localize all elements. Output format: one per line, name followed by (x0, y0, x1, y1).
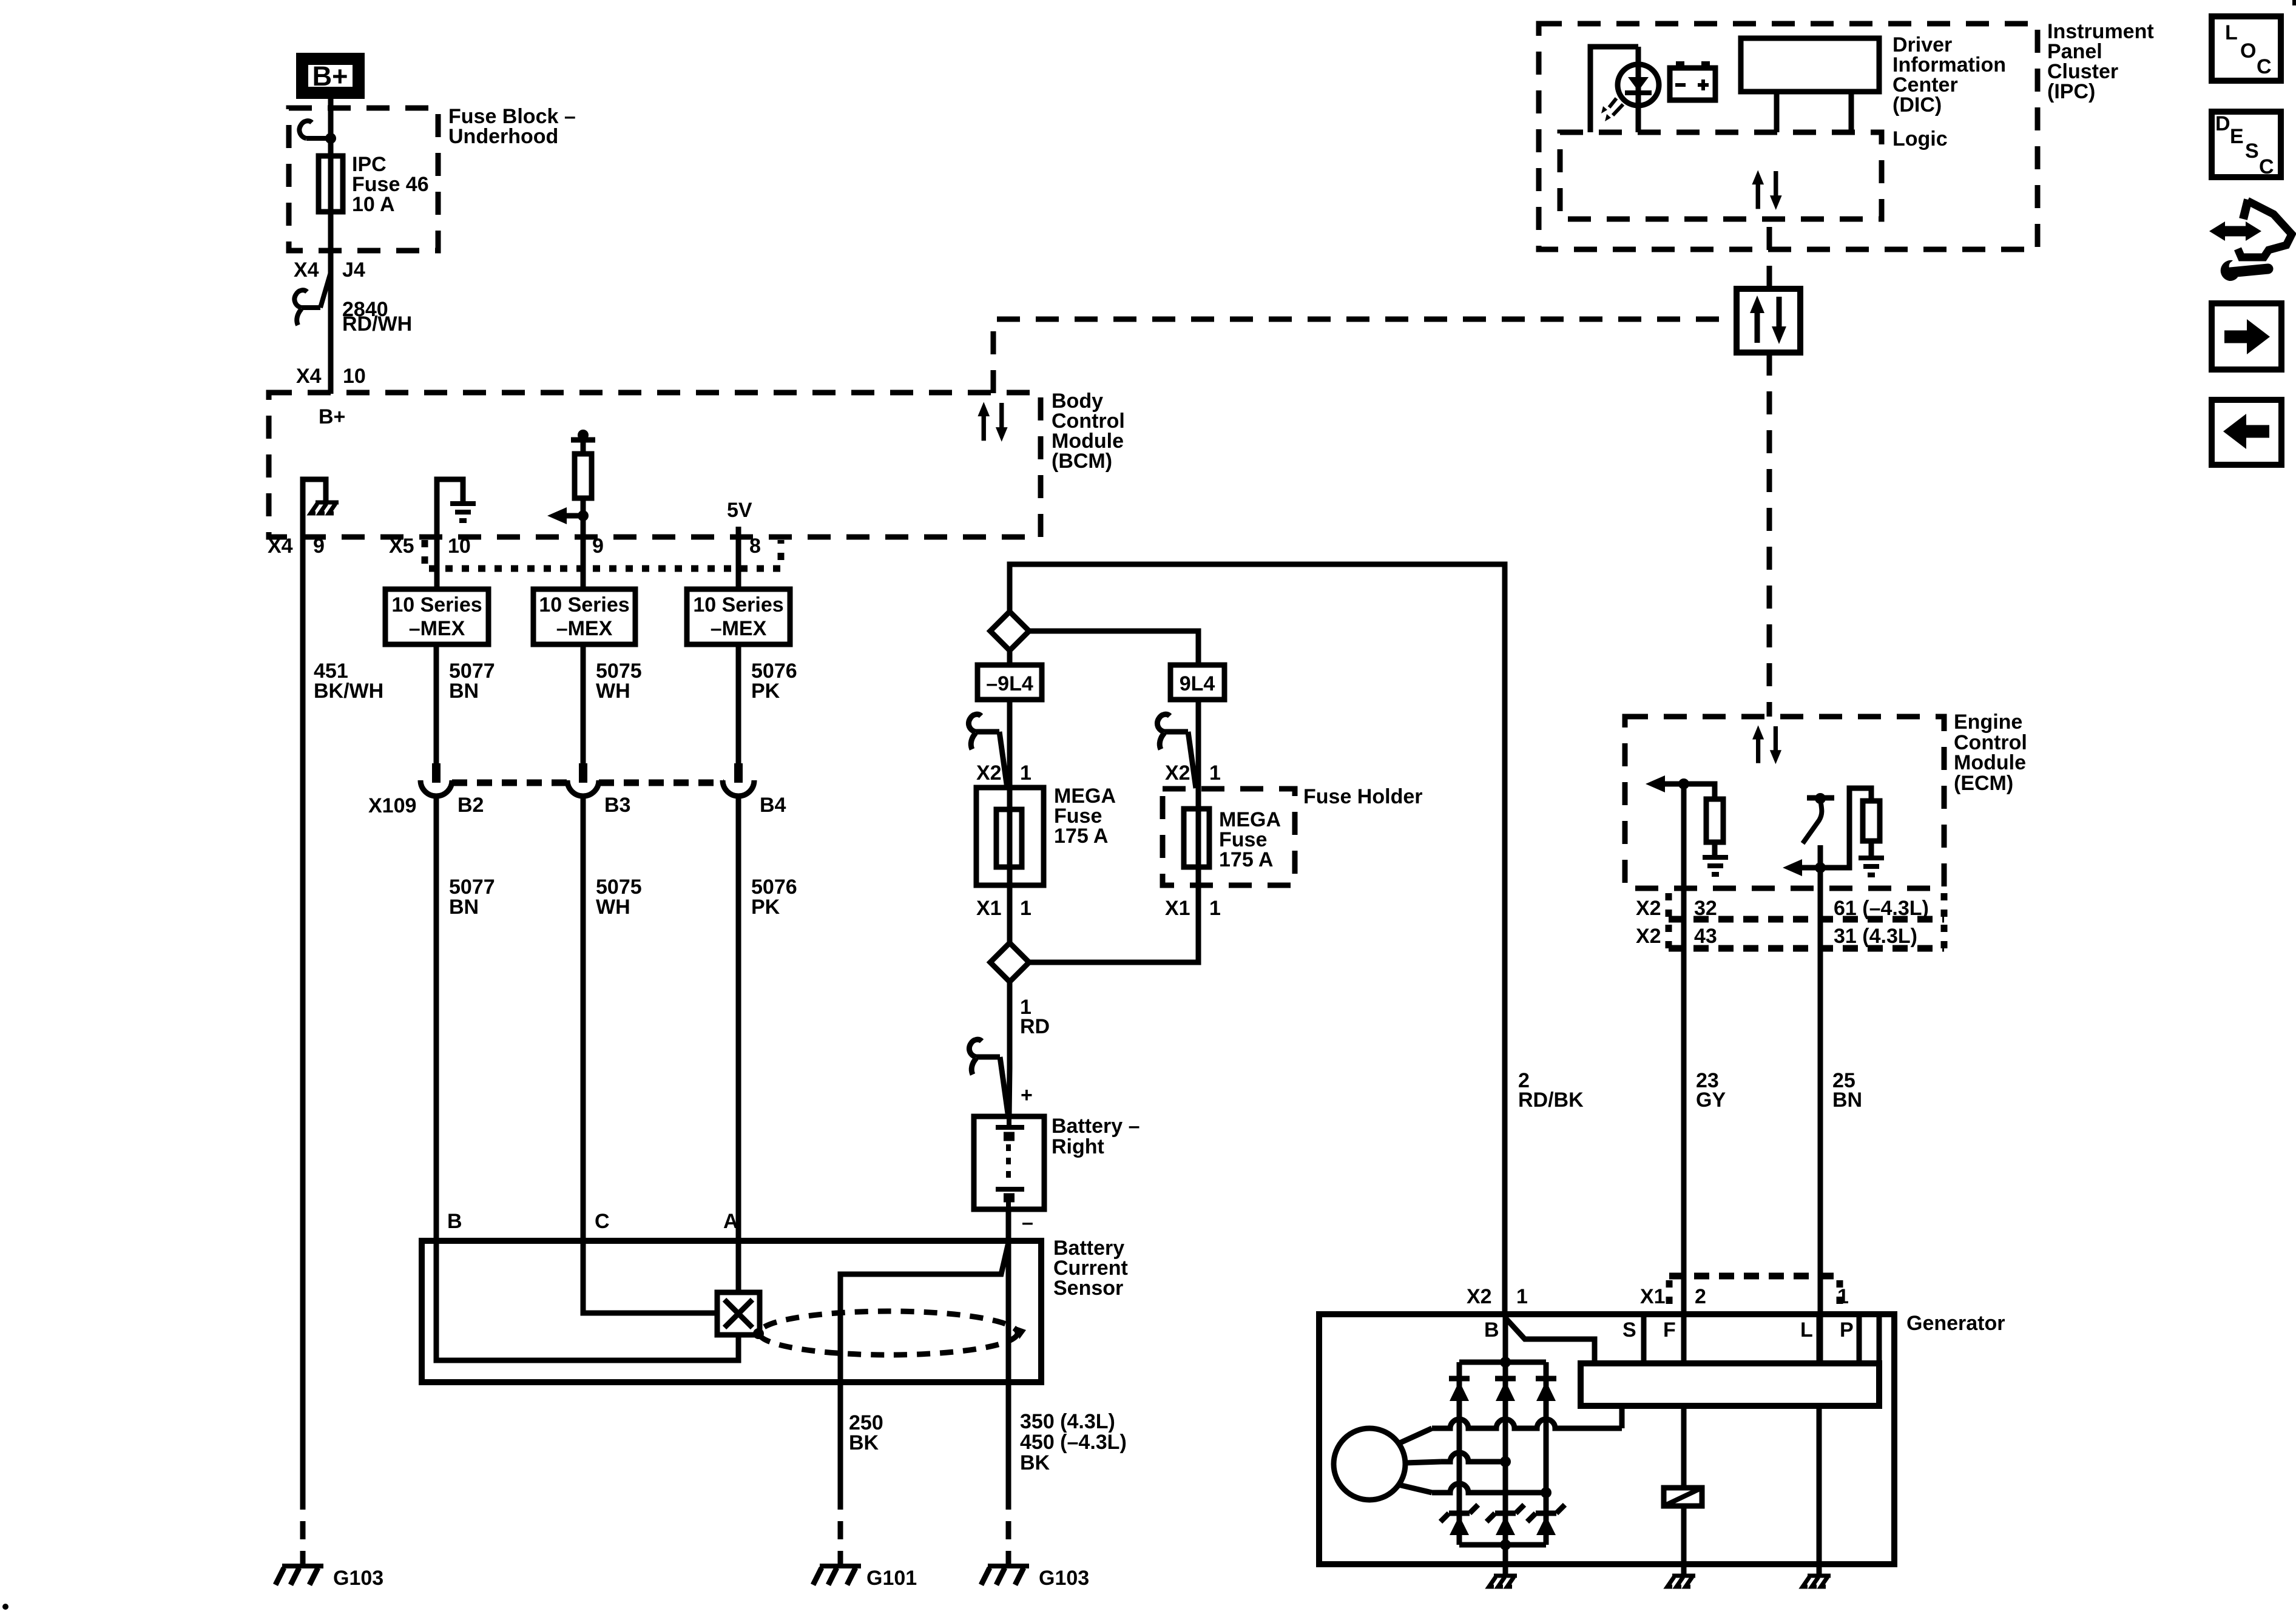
connector X109 pin B4 (723, 763, 754, 796)
ECM wire pin 32-43 down (1681, 784, 1687, 1363)
wire B3 to sensor C (581, 796, 586, 1241)
svg-text:1: 1 (1516, 1285, 1528, 1308)
svg-text:175 A: 175 A (1219, 848, 1273, 871)
left MEGA fuse element (996, 809, 1022, 867)
generator F ground (1667, 1576, 1695, 1587)
connector X109 pin B2 (420, 763, 452, 796)
battery cell bottom long plate (996, 1187, 1024, 1192)
battery main negative wire through sensor (1006, 1209, 1011, 1382)
generator box (1319, 1314, 1894, 1564)
wire 23 GY ECM to F terminal (1681, 1314, 1687, 1363)
charge telltale battery icon (1670, 68, 1715, 100)
svg-text:BN: BN (1832, 1089, 1862, 1112)
svg-text:2: 2 (1695, 1285, 1706, 1308)
top diode leg3 (1536, 1379, 1556, 1401)
svg-text:1: 1 (1020, 897, 1032, 920)
field relay element (1664, 1488, 1702, 1506)
svg-text:10 Series: 10 Series (391, 593, 482, 616)
generator X1 connector dashed outline (1669, 1273, 1840, 1280)
wire 25 BN to L terminal (1817, 1314, 1822, 1363)
rotor lead bottom (1399, 1485, 1432, 1493)
svg-text:J4: J4 (342, 258, 365, 282)
svg-text:A: A (723, 1210, 738, 1233)
generator B ground (1489, 1576, 1517, 1587)
battery internal stubs (1008, 1116, 1009, 1209)
sensor internal wire B return (436, 1241, 738, 1360)
svg-text:X2: X2 (1636, 897, 1661, 920)
svg-text:B: B (447, 1210, 462, 1233)
stator phase B winding (1441, 1453, 1505, 1462)
resistor to ground stub (1869, 841, 1874, 857)
rail junction dot (578, 430, 589, 441)
wire module2 to X109 B3 (581, 644, 586, 763)
wire B+ box to fuse block (328, 99, 334, 159)
ECM serial arrows (1752, 725, 1781, 764)
wire 451 dashed to ground (300, 1491, 306, 1561)
svg-text:PK: PK (751, 896, 780, 919)
wire B to case ground (1503, 1545, 1508, 1576)
svg-text:9L4: 9L4 (1180, 672, 1215, 695)
svg-text:G101: G101 (866, 1567, 917, 1590)
supply rail bar (571, 437, 595, 443)
net name box 9L4 (1170, 665, 1224, 700)
branch wire diamond to 9L4 (1029, 631, 1198, 665)
svg-text:C: C (2257, 55, 2272, 78)
svg-text:D: D (2215, 112, 2230, 135)
svg-text:450 (–4.3L): 450 (–4.3L) (1020, 1431, 1127, 1454)
ECM left branch to resistor (1684, 784, 1715, 799)
svg-text:(DIC): (DIC) (1893, 93, 1942, 116)
rectifier bottom bus (1459, 1542, 1546, 1548)
in-line connector clip right fuse X2-1 (1157, 714, 1196, 788)
branch wire right fuse to lower diamond (1029, 885, 1198, 962)
svg-text:B+: B+ (319, 405, 345, 428)
battery Battery-Right box (974, 1116, 1044, 1209)
adjust hand wrench icon (2243, 200, 2248, 219)
engine control module ECM dashed box (1625, 717, 1944, 888)
X109 connector dashed link (452, 780, 724, 786)
fuse holder dashed box (1163, 789, 1295, 885)
svg-text:Right: Right (1052, 1135, 1104, 1158)
svg-text:G103: G103 (333, 1567, 383, 1590)
svg-text:X109: X109 (368, 794, 416, 817)
net name box -9L4 (977, 665, 1042, 700)
ECM wire pin 61-31 down (1818, 868, 1823, 1363)
telltale LED bracket wiring (1590, 47, 1638, 132)
svg-text:X4: X4 (268, 535, 293, 558)
terminal slot P (1859, 1314, 1879, 1363)
junction dot at sensor element (753, 1328, 764, 1339)
svg-text:Sensor: Sensor (1053, 1277, 1123, 1300)
battery internal dashed link (1006, 1144, 1011, 1183)
serial data dashed line interface to ECM (1767, 353, 1772, 717)
IPC logic arrows (1752, 170, 1781, 210)
wire 9L4 to right MEGA fuse (1196, 700, 1201, 885)
svg-text:Logic: Logic (1893, 127, 1948, 150)
ground G103 right (1006, 1559, 1011, 1566)
svg-text:S: S (2245, 140, 2259, 163)
svg-text:X1: X1 (976, 897, 1002, 920)
wire 1 RD diamond to battery (1009, 982, 1010, 1116)
wire 250 BK dashed to ground (838, 1491, 843, 1561)
svg-text:C: C (595, 1210, 610, 1233)
svg-text:10 Series: 10 Series (539, 593, 629, 616)
back arrow icon box (2212, 400, 2281, 465)
regulator sense tap to phase A (1619, 1406, 1625, 1428)
wire 451 BK/WH long run (300, 537, 306, 1491)
wire BCM X5-9 to module 2 (581, 537, 586, 589)
switch lower stub (1818, 845, 1823, 868)
voltage regulator bar (1581, 1363, 1879, 1406)
svg-text:5V: 5V (727, 499, 752, 522)
svg-text:BN: BN (449, 896, 479, 919)
top diode leg1 (1449, 1379, 1470, 1401)
connector X109 pin B3 (567, 763, 599, 796)
svg-text:L: L (1800, 1318, 1813, 1342)
wire BCM X5-10 to module 1 (434, 537, 440, 589)
rotor lead middle (1405, 1462, 1441, 1463)
svg-text:10 Series: 10 Series (693, 593, 783, 616)
BCM serial data arrows (977, 402, 1007, 442)
switch contact dot (1815, 793, 1826, 804)
svg-text:BK: BK (849, 1431, 879, 1454)
serial data interface box (1737, 289, 1800, 353)
IPC logic dashed box (1560, 132, 1882, 219)
wire B2 to sensor B (434, 796, 439, 1241)
in-line connector clip battery feed (969, 1039, 1008, 1113)
svg-text:F: F (1663, 1318, 1676, 1342)
junction dot phase C (1541, 1487, 1551, 1498)
junction dot ECM left (1678, 778, 1689, 789)
svg-text:–MEX: –MEX (409, 617, 465, 640)
ECM right branch to resistor (1820, 788, 1871, 868)
svg-text:(IPC): (IPC) (2047, 80, 2095, 103)
svg-text:175 A: 175 A (1054, 825, 1108, 848)
LED emission arrows (1609, 98, 1623, 115)
svg-text:B2: B2 (458, 794, 484, 817)
svg-text:X4: X4 (294, 258, 319, 282)
svg-text:9: 9 (313, 535, 325, 558)
svg-text:–: – (1022, 1211, 1033, 1234)
fuse block underhood dashed box (289, 108, 438, 251)
body control module BCM dashed box (269, 393, 1041, 537)
svg-text:31 (4.3L): 31 (4.3L) (1834, 925, 1917, 948)
ECM switch top contact bar (1807, 795, 1834, 801)
wire 250 BK below sensor (838, 1382, 843, 1491)
fuse IPC Fuse 46 10 A (319, 156, 343, 212)
svg-text:+: + (1021, 1084, 1033, 1107)
stator phase C winding (1432, 1484, 1546, 1493)
svg-text:B4: B4 (760, 794, 786, 817)
sensor dashed sensing loop ellipse (759, 1311, 1018, 1355)
svg-text:(BCM): (BCM) (1052, 450, 1112, 473)
ground G103 left (300, 1559, 306, 1566)
svg-text:BK/WH: BK/WH (314, 680, 383, 703)
svg-text:350 (4.3L): 350 (4.3L) (1020, 1410, 1115, 1433)
ECM resistor right (1863, 801, 1880, 841)
junction dot ECM right (1815, 862, 1826, 873)
splice diamond lower (990, 943, 1029, 982)
B+ battery feed terminal box (302, 59, 359, 93)
sensor hall element box with X (717, 1292, 760, 1335)
top feed wire from generator B to splice (1010, 564, 1505, 1314)
svg-text:P: P (1840, 1318, 1854, 1342)
svg-text:9: 9 (592, 535, 604, 558)
instrument panel cluster IPC dashed box (1539, 24, 2038, 249)
wire 2840 RD/WH fuse block to BCM (328, 251, 334, 394)
interface box arrows (1750, 295, 1786, 344)
10 Series -MEX module 2 (533, 589, 635, 644)
in-line connector clip X4-J4 (294, 272, 331, 325)
svg-text:WH: WH (596, 896, 630, 919)
svg-text:8: 8 (749, 535, 761, 558)
X5 connector dotted outline (425, 540, 781, 569)
rotor circle (1334, 1428, 1405, 1500)
battery cell top long plate (996, 1125, 1024, 1130)
B terminal tap to regulator (1505, 1318, 1595, 1363)
svg-text:PK: PK (751, 680, 780, 703)
svg-text:L: L (2225, 21, 2238, 44)
svg-text:X5: X5 (389, 535, 414, 558)
sensor internal wire A (736, 1241, 741, 1292)
svg-text:1: 1 (1209, 897, 1221, 920)
svg-text:–MEX: –MEX (556, 617, 613, 640)
svg-text:BK: BK (1020, 1451, 1050, 1474)
BCM pull-up resistor (581, 498, 586, 516)
ECM earth ground right (1859, 858, 1884, 875)
BCM earth ground symbol (450, 504, 476, 521)
right MEGA fuse element (1184, 809, 1209, 867)
wire 5V pin 8 (736, 527, 741, 589)
wire module1 to X109 B2 (434, 644, 439, 763)
svg-text:RD/WH: RD/WH (342, 312, 412, 336)
svg-text:X1: X1 (1165, 897, 1190, 920)
DIC display module box (1741, 38, 1879, 92)
svg-text:S: S (1622, 1318, 1636, 1342)
svg-text:Fuse Holder: Fuse Holder (1303, 785, 1422, 808)
ECM connector row dotted outline (1669, 893, 1944, 948)
terminal slot S (1641, 1314, 1647, 1363)
svg-text:Module: Module (1954, 751, 2026, 774)
wire B4 to sensor A (736, 796, 741, 1241)
svg-text:X2: X2 (1165, 761, 1190, 785)
svg-text:GY: GY (1696, 1089, 1726, 1112)
wire relay to generator case (1681, 1506, 1687, 1576)
svg-text:X2: X2 (1636, 925, 1661, 948)
svg-text:B+: B+ (312, 61, 348, 92)
svg-text:X2: X2 (976, 761, 1002, 785)
battery cell bottom short plate (1004, 1193, 1015, 1203)
sensing loop arrow tip (1016, 1326, 1026, 1339)
ground G101 (838, 1559, 843, 1566)
zener diode leg1 (1440, 1505, 1478, 1535)
in-line connector clip left fuse X2-1 (968, 714, 1007, 788)
stray period bottom left (2, 1604, 8, 1610)
DESC icon box (2212, 112, 2281, 177)
splice diamond upper (990, 612, 1029, 650)
rectifier leg 1 (1457, 1362, 1462, 1545)
svg-text:RD/BK: RD/BK (1518, 1089, 1584, 1112)
svg-text:C: C (2259, 155, 2274, 178)
wire -9L4 to left MEGA fuse (1007, 700, 1013, 943)
zener diode leg3 (1527, 1505, 1565, 1535)
serial data dashed line BCM to interface (993, 319, 1737, 393)
svg-text:61 (–4.3L): 61 (–4.3L) (1834, 897, 1929, 920)
svg-text:10 A: 10 A (352, 193, 395, 216)
svg-text:–9L4: –9L4 (986, 672, 1033, 695)
serial data dashed line interface to IPC logic (1767, 219, 1772, 289)
svg-text:RD: RD (1020, 1015, 1050, 1038)
battery current sensor box (422, 1241, 1041, 1382)
battery negative tap wire to 250 BK (840, 1243, 1008, 1382)
junction dot phase B (1500, 1456, 1511, 1467)
top diode leg2 (1495, 1379, 1516, 1401)
BCM chassis ground symbol (311, 502, 339, 513)
svg-text:1: 1 (1020, 761, 1032, 785)
BCM internal chassis ground circuit pin X4-9 (303, 479, 326, 537)
LED diode triangle (1628, 77, 1649, 91)
svg-text:1: 1 (1209, 761, 1221, 785)
ECM field monitor input arrow (1665, 781, 1684, 787)
wire module3 to X109 B4 (736, 644, 741, 763)
svg-text:43: 43 (1694, 925, 1717, 948)
svg-text:G103: G103 (1039, 1567, 1089, 1590)
svg-text:X1: X1 (1640, 1285, 1666, 1308)
svg-text:X2: X2 (1467, 1285, 1492, 1308)
svg-text:Generator: Generator (1906, 1312, 2005, 1335)
wire through fuse (328, 138, 334, 251)
battery cell top short plate (1004, 1132, 1015, 1141)
LOC icon box (2212, 16, 2281, 81)
svg-text:10: 10 (448, 535, 471, 558)
resistor to ground stub (1712, 842, 1718, 856)
sensor internal wire C (583, 1241, 717, 1313)
ECM L monitor arrow (1802, 865, 1820, 871)
svg-text:Battery –: Battery – (1052, 1115, 1140, 1138)
svg-text:E: E (2230, 125, 2244, 148)
generator L ground (1803, 1576, 1831, 1587)
rectifier top bus (1459, 1360, 1546, 1365)
wire diamond to -9L4 box (1007, 650, 1013, 665)
telltale LED circle (1618, 64, 1659, 106)
svg-text:Underhood: Underhood (448, 125, 558, 148)
stator phase A winding (1432, 1419, 1622, 1428)
wire 350 450 BK below sensor (1006, 1382, 1011, 1491)
svg-text:10: 10 (343, 365, 366, 388)
svg-text:32: 32 (1694, 897, 1717, 920)
generator B wire full drop (1503, 1314, 1508, 1545)
junction dot bottom bus (1500, 1539, 1511, 1550)
junction dot top bus (1500, 1357, 1511, 1368)
DIC display legs (1777, 92, 1851, 132)
splice clip in fuse block (299, 121, 336, 144)
svg-text:O: O (2240, 39, 2256, 62)
wire F below regulator to relay (1681, 1406, 1687, 1488)
10 Series -MEX module 3 (687, 589, 790, 644)
zener diode leg2 (1487, 1505, 1524, 1535)
LED cathode bar (1625, 90, 1652, 95)
svg-text:X4: X4 (296, 365, 322, 388)
BCM internal earth ground circuit pin X5-10 (437, 479, 463, 537)
svg-text:–MEX: –MEX (711, 617, 767, 640)
rectifier leg 3 (1544, 1362, 1549, 1545)
stray mark top right (2292, 0, 2296, 5)
svg-text:WH: WH (596, 680, 630, 703)
svg-text:B: B (1484, 1318, 1499, 1342)
ECM earth ground left (1703, 857, 1728, 874)
wire L below regulator down (1817, 1406, 1822, 1576)
svg-text:B3: B3 (604, 794, 630, 817)
forward arrow icon box (2212, 303, 2281, 370)
junction dot (578, 510, 589, 521)
svg-text:(ECM): (ECM) (1954, 772, 2013, 795)
left MEGA fuse outer box (976, 788, 1044, 885)
rotor lead top (1399, 1428, 1432, 1443)
svg-text:Engine: Engine (1954, 711, 2022, 734)
10 Series -MEX module 1 (385, 589, 488, 644)
BCM internal input arrow pin X5-9 (567, 516, 583, 537)
switch blade (1803, 800, 1822, 843)
wire 350 450 BK dashed to ground (1006, 1491, 1011, 1561)
ECM resistor left (1706, 799, 1723, 842)
svg-text:BN: BN (449, 680, 479, 703)
